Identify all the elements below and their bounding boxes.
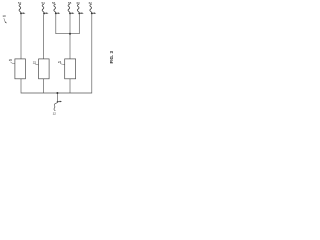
svg-text:10: 10 bbox=[2, 14, 6, 18]
svg-text:60: 60 bbox=[77, 1, 81, 5]
svg-text:56: 56 bbox=[52, 1, 56, 5]
svg-text:24: 24 bbox=[58, 60, 62, 64]
svg-text:22: 22 bbox=[33, 60, 37, 64]
svg-text:58: 58 bbox=[68, 1, 72, 5]
svg-text:62: 62 bbox=[89, 1, 93, 5]
svg-text:12: 12 bbox=[53, 111, 57, 115]
svg-text:20: 20 bbox=[9, 58, 13, 62]
svg-text:54: 54 bbox=[42, 1, 46, 5]
svg-text:FIG. 3: FIG. 3 bbox=[109, 50, 114, 63]
svg-text:52: 52 bbox=[18, 1, 22, 5]
